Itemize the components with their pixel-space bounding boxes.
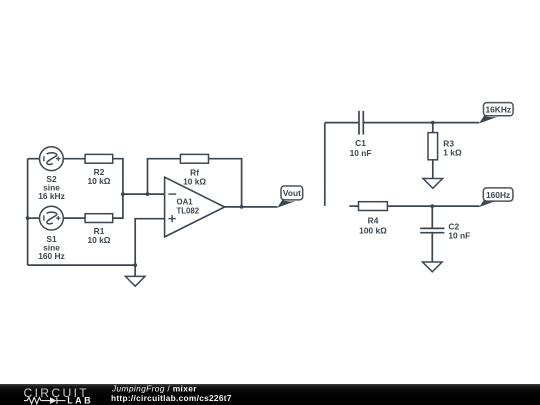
wire: inverting input bbox=[123, 193, 165, 195]
svg-text:TL082: TL082 bbox=[177, 207, 200, 216]
svg-text:1 kΩ: 1 kΩ bbox=[443, 148, 462, 158]
net flag Vout bbox=[277, 186, 303, 208]
ground (main rail) bbox=[125, 265, 145, 286]
node: junction C1/R3 bbox=[431, 121, 435, 125]
wire: Rf right down to output bbox=[209, 159, 242, 207]
svg-text:http://circuitlab.com/cs226t7: http://circuitlab.com/cs226t7 bbox=[111, 393, 232, 403]
ground (C2) bbox=[423, 262, 443, 272]
wire: R4 right to 160Hz flag bbox=[387, 205, 479, 207]
wire: C2 bottom lead bbox=[431, 233, 433, 262]
op-amp OA1 TL082 bbox=[165, 177, 225, 237]
wire: right circuit input vertical bbox=[324, 123, 326, 206]
source S1 (sine 160 Hz) bbox=[40, 206, 64, 230]
svg-text:10 kΩ: 10 kΩ bbox=[87, 235, 110, 245]
logo circuit glyph (resistor + diode) bbox=[24, 397, 66, 404]
net flag 16KHz bbox=[479, 103, 513, 124]
wire: R2 right to inverting node bbox=[113, 159, 123, 194]
source S2 (sine 16 kHz) bbox=[40, 147, 64, 171]
wire: R3 top lead bbox=[432, 123, 434, 133]
svg-text:LAB: LAB bbox=[67, 395, 93, 405]
svg-text:16KHz: 16KHz bbox=[485, 105, 511, 115]
svg-text:10 kΩ: 10 kΩ bbox=[183, 176, 206, 186]
wire: bottom ground rail bbox=[28, 264, 136, 266]
wire: non-inverting input to ground rail bbox=[135, 219, 164, 265]
ground (R3) bbox=[423, 179, 443, 189]
resistor R4 bbox=[359, 202, 388, 211]
svg-text:10 nF: 10 nF bbox=[350, 148, 372, 158]
wire: R1 right to inverting node bbox=[113, 194, 123, 218]
svg-text:160Hz: 160Hz bbox=[486, 190, 510, 200]
node: junction feedback bbox=[146, 192, 150, 196]
node: junction bottom rail / ground bbox=[133, 263, 137, 267]
node: junction R1/R2 bbox=[121, 192, 125, 196]
wire: R3 bottom lead bbox=[432, 160, 434, 179]
capacitor C1 bbox=[359, 111, 363, 135]
resistor Rf bbox=[180, 154, 208, 163]
resistor R1 bbox=[85, 214, 113, 223]
node: junction R4/C2 bbox=[430, 204, 434, 208]
wire: C2 top lead bbox=[431, 206, 433, 228]
node: output junction bbox=[240, 205, 244, 209]
svg-text:OA1: OA1 bbox=[177, 198, 194, 207]
wire: S2 to R2 bbox=[63, 158, 85, 160]
wire: S1 to R1 bbox=[63, 217, 85, 219]
wire: R4 left stub bbox=[349, 205, 358, 207]
svg-text:R4: R4 bbox=[368, 216, 379, 226]
node: junction S1 left bbox=[26, 216, 30, 220]
wire: left vertical bus bbox=[27, 159, 29, 265]
wire: op-amp output bbox=[225, 206, 278, 208]
resistor R2 bbox=[85, 154, 113, 163]
footer bar bbox=[0, 384, 540, 405]
svg-text:Vout: Vout bbox=[283, 188, 301, 198]
wire: feedback to Rf left bbox=[148, 159, 181, 194]
svg-text:10 kΩ: 10 kΩ bbox=[87, 176, 110, 186]
svg-text:100 kΩ: 100 kΩ bbox=[359, 225, 387, 235]
wire: C1 left lead bbox=[325, 122, 359, 124]
wire: S2 left lead bbox=[28, 158, 40, 160]
wire: C1 right to 16KHz flag bbox=[363, 122, 479, 124]
svg-text:160 Hz: 160 Hz bbox=[38, 251, 65, 261]
net flag 160Hz bbox=[479, 188, 513, 207]
wire: S1 left lead bbox=[28, 217, 40, 219]
svg-text:16 kHz: 16 kHz bbox=[38, 191, 65, 201]
svg-text:C1: C1 bbox=[355, 138, 366, 148]
resistor R3 bbox=[428, 133, 438, 160]
capacitor C2 bbox=[420, 228, 444, 232]
svg-text:10 nF: 10 nF bbox=[448, 231, 470, 241]
